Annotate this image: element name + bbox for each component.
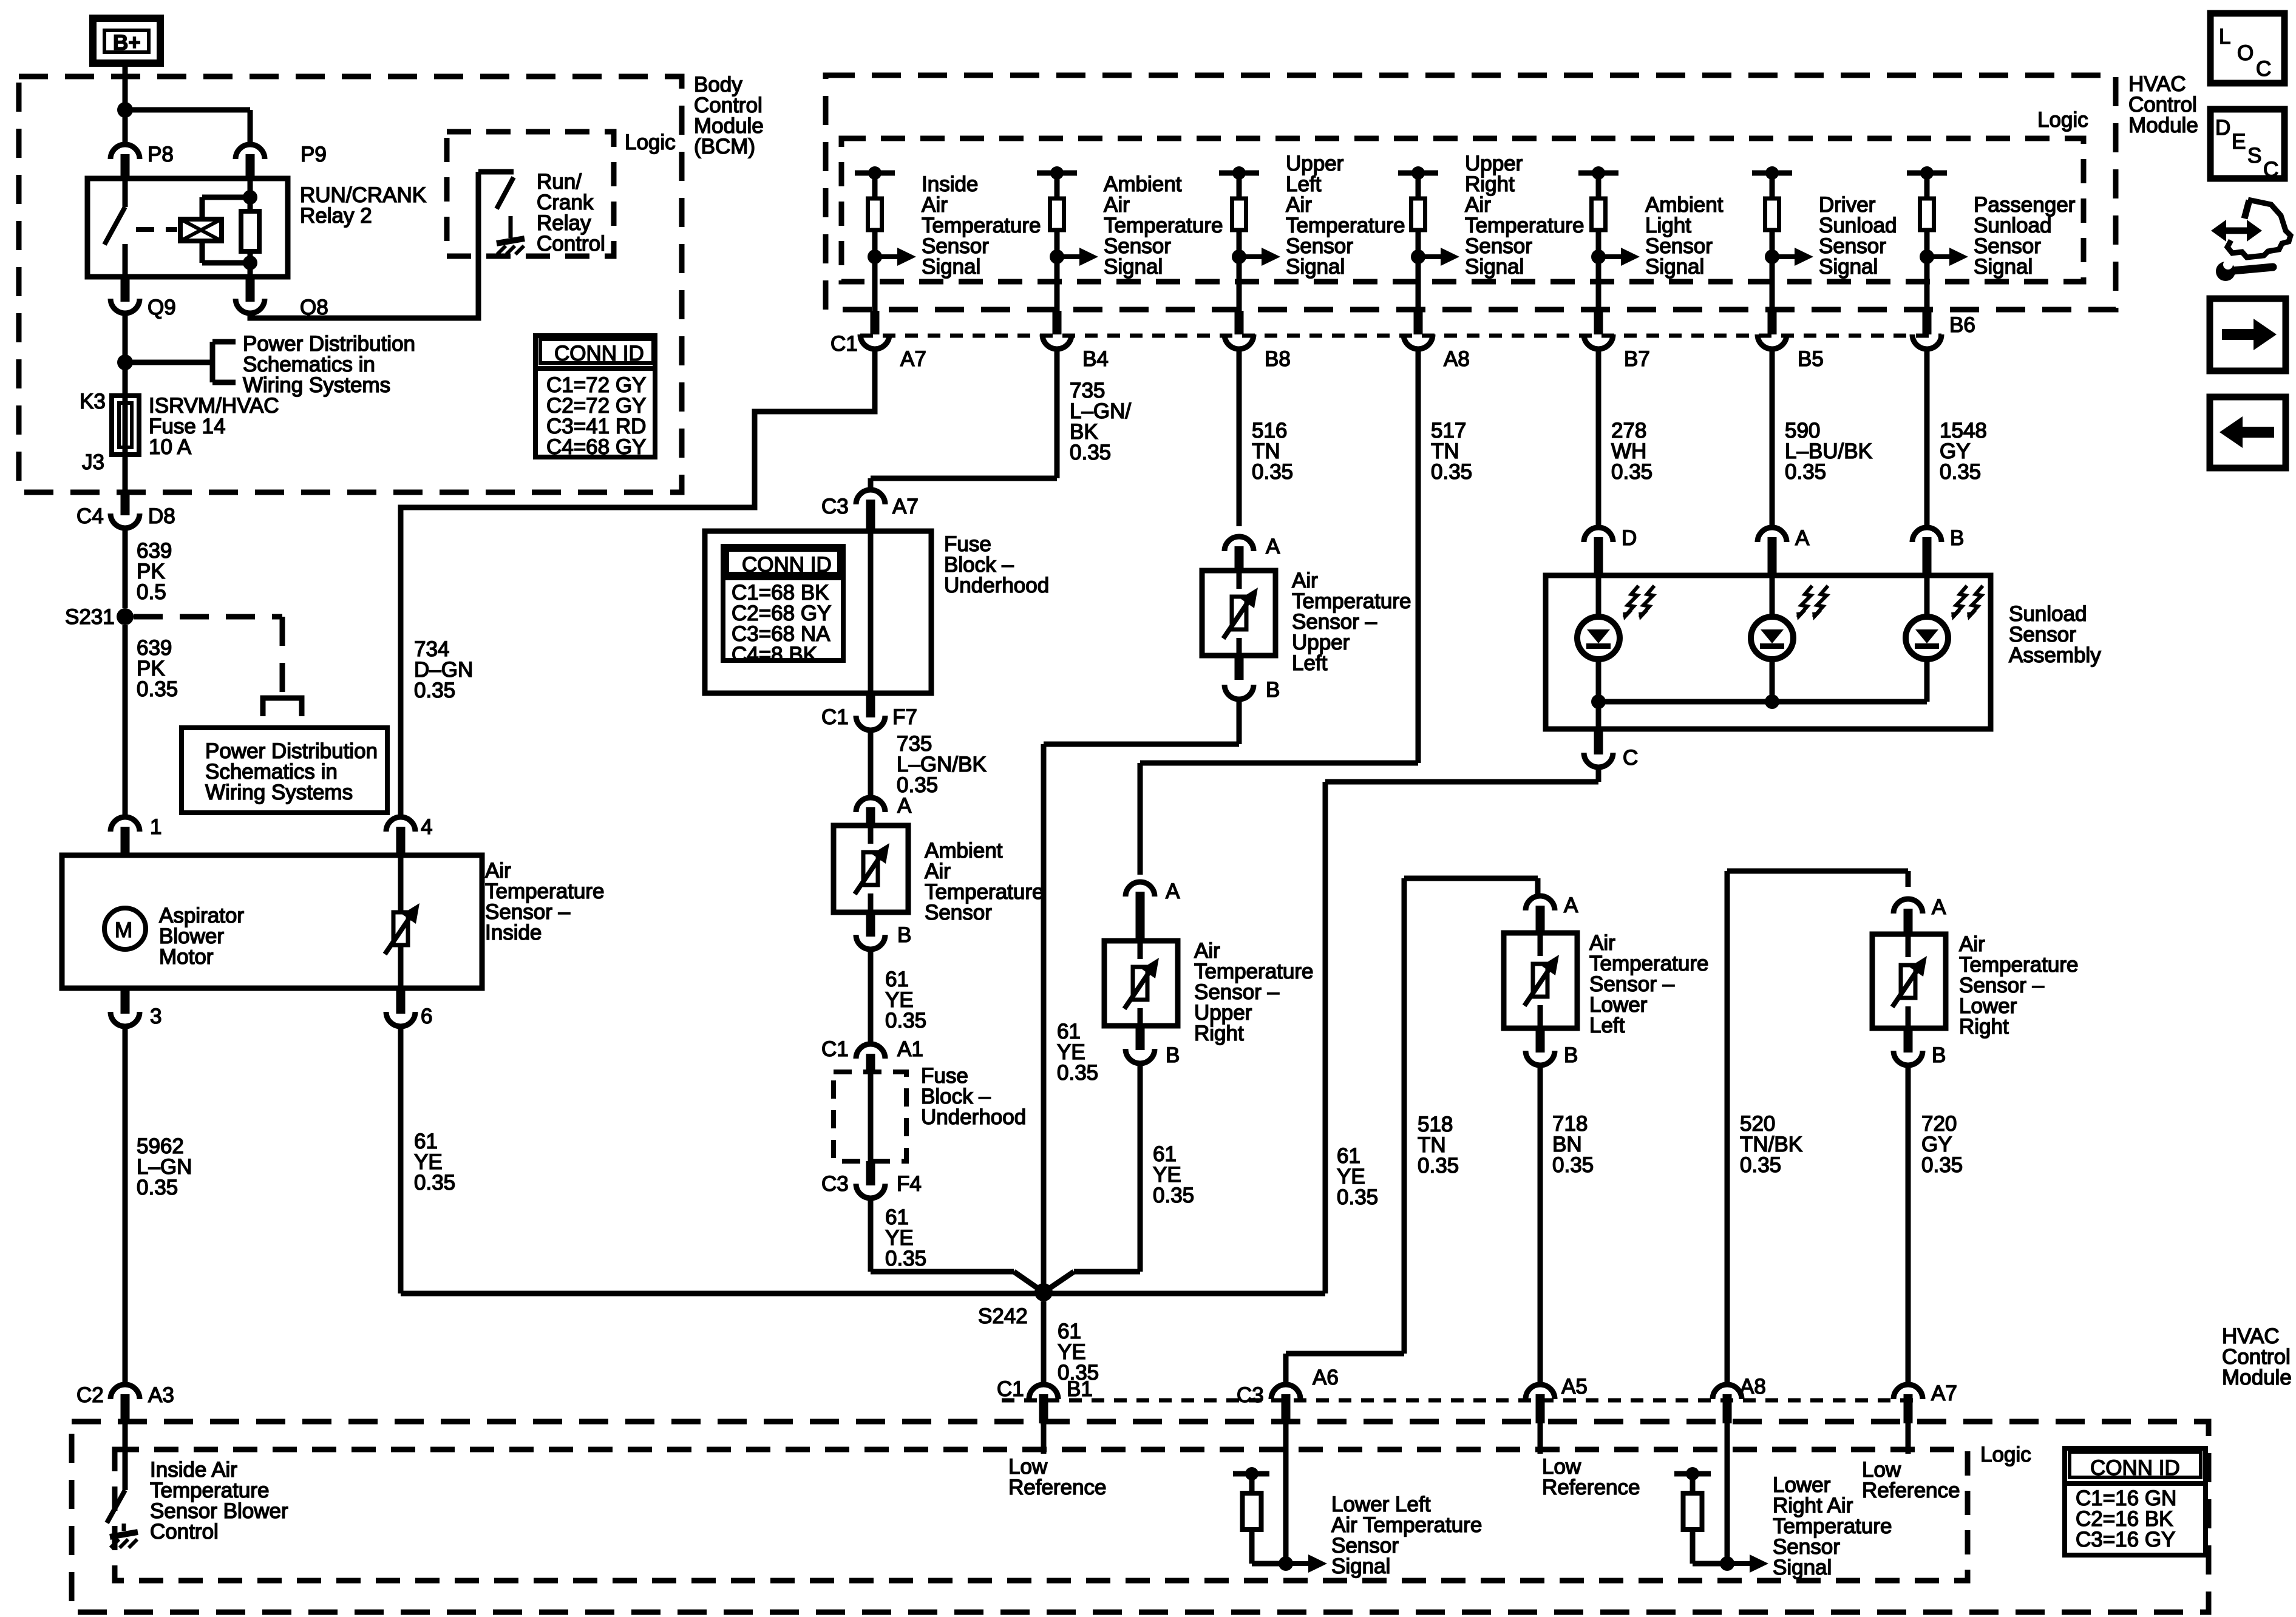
wire label 61 YE 0.35 below S242	[1058, 1320, 1099, 1385]
wire 61 YE 0.35 ambient	[868, 949, 874, 1043]
HVAC input element B5 Driver Sunload sensor signal	[1752, 166, 1813, 311]
wire label 278 WH 0.35	[1611, 419, 1652, 484]
fuse block underhood dashed box	[834, 1072, 906, 1161]
svg-text:C1=68 BKC2=68 GYC3=68 NAC4=8 B: C1=68 BKC2=68 GYC3=68 NAC4=8 BK	[732, 581, 831, 666]
wire 639 PK 0.5	[123, 528, 128, 608]
svg-text:6: 6	[421, 1005, 432, 1028]
connector pin 1	[110, 815, 161, 855]
wire label 1548 GY 0.35	[1940, 419, 1987, 484]
HVAC bottom logic dashed box	[115, 1449, 1968, 1581]
wire label 61 YE 0.35 ambient	[885, 968, 926, 1032]
connector pin A upper right	[1126, 880, 1180, 941]
svg-text:M: M	[115, 918, 132, 942]
svg-text:C4: C4	[76, 504, 104, 528]
svg-text:C: C	[2263, 158, 2278, 181]
connector pin Q8	[236, 277, 328, 319]
svg-text:3: 3	[150, 1005, 161, 1028]
wire label 734 D-GN 0.35	[414, 637, 473, 702]
relay label	[300, 183, 426, 228]
icon diagnostic arrows car and wrench	[2211, 200, 2291, 281]
svg-text:C3: C3	[821, 495, 849, 518]
wire S242 to B1	[1041, 1301, 1047, 1386]
svg-text:A: A	[897, 794, 912, 818]
HVAC input label Inside Air Temperature Sensor Signal	[922, 172, 1041, 279]
fuse block CONN ID table	[723, 546, 843, 666]
svg-text:C1: C1	[997, 1377, 1024, 1401]
svg-text:J3: J3	[82, 450, 104, 474]
svg-text:C1: C1	[821, 705, 849, 729]
air temperature sensor lower left label	[1589, 931, 1708, 1037]
connector pin C sunload	[1584, 729, 1638, 770]
svg-text:B7: B7	[1624, 347, 1650, 371]
low reference label A5	[1542, 1455, 1640, 1499]
svg-text:CONN ID: CONN ID	[742, 553, 832, 577]
connector pin B7	[1584, 311, 1650, 371]
svg-text:Q9: Q9	[148, 296, 176, 319]
connector pin B lower right	[1894, 1028, 1946, 1067]
off-page bracket to power distribution box	[263, 698, 302, 716]
fuse block underhood box	[705, 531, 931, 693]
svg-text:C1: C1	[821, 1037, 849, 1061]
wire 639 PK 0.35	[123, 625, 128, 818]
fuse pin label K3	[80, 390, 106, 413]
connector pin C3 A7 fuse block	[821, 490, 919, 531]
aspirator blower motor label	[159, 904, 244, 969]
svg-text:A: A	[1795, 526, 1810, 550]
icon arrow left box	[2210, 397, 2286, 468]
battery positive voltage symbol B+	[93, 18, 160, 63]
ambient air temperature sensor box	[834, 825, 908, 912]
svg-text:B+: B+	[113, 31, 141, 55]
HVAC input label Passenger Sunload Sensor Signal	[1974, 193, 2076, 279]
svg-text:A1: A1	[897, 1037, 923, 1061]
svg-text:CONN ID: CONN ID	[554, 342, 644, 365]
bottom connector row C dashed line	[1002, 1398, 1918, 1403]
off-page bracket power distribution	[212, 342, 236, 382]
svg-text:S: S	[2247, 144, 2261, 168]
connector pin 6	[386, 988, 432, 1028]
low reference label B1	[1008, 1455, 1106, 1499]
connector pin B8	[1224, 311, 1291, 371]
air temperature sensor upper left label	[1292, 569, 1411, 675]
svg-text:B: B	[1266, 678, 1280, 702]
icon arrow right box	[2210, 299, 2286, 371]
wire label 735 L-GN/BK 0.35	[897, 732, 987, 797]
BCM CONN ID table	[535, 336, 655, 459]
wire label 639 PK 0.35	[137, 636, 178, 701]
HVAC logic dashed box	[841, 138, 2084, 282]
svg-text:A: A	[1932, 895, 1946, 919]
svg-text:C1: C1	[830, 332, 858, 356]
wire low reference A7	[1906, 1423, 1911, 1454]
icon DESC box	[2210, 109, 2284, 181]
ambient air temperature sensor label	[925, 839, 1044, 924]
HVAC input element B6 Passenger Sunload sensor signal	[1907, 166, 1968, 311]
HVAC input element B8 Upper Left Air Temperature sensor signal	[1219, 166, 1280, 311]
wire label 516 TN 0.35	[1252, 419, 1293, 484]
wire S242 bus	[401, 1291, 1325, 1297]
connector pin A ambient sensor	[856, 794, 912, 825]
HVAC input element B4 Ambient Air Temperature sensor signal	[1037, 166, 1098, 311]
connector pin C3 F4	[821, 1161, 922, 1198]
HVAC input label Upper Left Air Temperature Sensor Signal	[1286, 152, 1405, 279]
svg-text:D: D	[2215, 116, 2230, 140]
connector pin 3	[110, 988, 161, 1028]
ground run/crank relay control	[497, 239, 525, 254]
splice S242	[978, 1283, 1053, 1328]
svg-text:Logic: Logic	[1980, 1443, 2031, 1466]
fuse block underhood label	[944, 532, 1049, 597]
connector pin A8 bottom	[1713, 1375, 1766, 1423]
aspirator blower motor box	[62, 855, 482, 988]
wire label 61 YE 0.35 blower	[414, 1130, 455, 1195]
bottom CONN ID table	[2065, 1448, 2206, 1555]
svg-text:D: D	[1622, 526, 1637, 550]
svg-text:C1=16 GNC2=16 BKC3=16 GY: C1=16 GNC2=16 BKC3=16 GY	[2076, 1486, 2176, 1551]
ground inside air temp sensor blower control	[110, 1532, 138, 1548]
connector pin A7 bottom	[1894, 1381, 1957, 1423]
connector pin Q9	[110, 277, 176, 319]
BCM Logic label	[625, 131, 676, 154]
inside air temperature sensor blower control switch	[107, 1423, 125, 1531]
svg-text:B: B	[897, 923, 911, 947]
connector pin B4	[1042, 311, 1109, 371]
HVAC input element A7 Inside Air Temperature sensor signal	[855, 166, 916, 311]
svg-text:A: A	[1564, 893, 1578, 917]
HVAC input label Upper Right Air Temperature Sensor Signal	[1465, 152, 1584, 279]
BCM label	[694, 73, 764, 158]
low reference label A7	[1862, 1458, 1960, 1502]
svg-text:B4: B4	[1082, 347, 1109, 371]
wire label 735 L–GN/ BK 0.35	[1070, 379, 1131, 464]
wire label 61 YE 0.35 ur	[1153, 1142, 1194, 1207]
connector pin C1 A1	[821, 1037, 923, 1072]
connector pin C1 F7	[821, 693, 917, 730]
HVAC input element A8 Upper Right Air Temperature sensor signal	[1398, 166, 1459, 311]
svg-text:B8: B8	[1265, 347, 1291, 371]
svg-text:278WH0.35: 278WH0.35	[1611, 419, 1652, 484]
svg-text:A8: A8	[1740, 1375, 1766, 1398]
run/crank relay control label	[537, 170, 605, 256]
svg-text:1: 1	[150, 815, 161, 839]
connector pin D sunload	[1584, 526, 1637, 575]
wire 61 YE upper right return	[1044, 1063, 1140, 1292]
svg-text:C2: C2	[76, 1383, 104, 1407]
photodiode passenger sunload sensor	[1906, 575, 1983, 702]
motor M aspirator blower	[104, 908, 146, 949]
svg-text:E: E	[2232, 130, 2246, 154]
wire 516 TN from B8	[1237, 349, 1242, 526]
HVAC control module bottom dashed box	[72, 1422, 2209, 1612]
relay coil suppression resistor	[241, 178, 259, 277]
wire label 639 PK 0.5	[137, 539, 172, 604]
svg-text:A7: A7	[892, 495, 919, 518]
air temperature sensor upper left box	[1202, 571, 1275, 656]
svg-text:F4: F4	[897, 1172, 922, 1196]
wire label 517 TN 0.35	[1431, 419, 1472, 484]
node junction to P9 branch	[117, 102, 250, 146]
wire low reference A5	[1538, 1423, 1543, 1454]
photodiode driver sunload sensor	[1751, 575, 1828, 702]
wire 517 TN from A8	[1140, 349, 1418, 875]
air temperature sensor lower right box	[1872, 934, 1946, 1028]
lower right air temperature sensor signal element	[1674, 1423, 1768, 1573]
connector pin A7	[830, 311, 926, 371]
svg-text:A8: A8	[1444, 347, 1470, 371]
svg-text:A: A	[1166, 880, 1180, 903]
fuse pin label J3	[82, 450, 104, 474]
svg-text:C: C	[1623, 746, 1638, 770]
connector pin C4 D8	[76, 490, 175, 528]
sunload sensor assembly label	[2009, 602, 2101, 667]
svg-text:B1: B1	[1067, 1377, 1093, 1401]
node coil bottom junction	[243, 256, 257, 270]
connector pin A lower left	[1526, 893, 1578, 933]
relay coil	[180, 197, 250, 263]
wire 61 YE sunload return	[1325, 767, 1598, 1293]
svg-text:K3: K3	[80, 390, 106, 413]
connector pin B5	[1758, 311, 1824, 371]
relay RUN/CRANK Relay 2 box	[87, 178, 288, 277]
node coil top junction	[243, 190, 257, 205]
HVAC control module label	[2128, 72, 2198, 137]
wire 5962 L-GN 0.35	[123, 1026, 128, 1386]
wire 718 BN 0.35	[1538, 1065, 1543, 1386]
relay actuator dashed link	[136, 227, 177, 232]
connector pin P8	[110, 143, 174, 178]
svg-text:S242: S242	[978, 1304, 1028, 1328]
HVAC input label Driver Sunload Sensor Signal	[1819, 193, 1897, 279]
connector pin B6	[1912, 311, 1975, 349]
connector pin A upper left	[1224, 535, 1280, 571]
HVAC input element B7 Ambient Light sensor signal	[1578, 166, 1640, 311]
wire sunload common bus	[1591, 694, 1927, 729]
icon LOC box	[2210, 13, 2284, 83]
air temperature sensor upper right box	[1104, 941, 1178, 1026]
photodiode ambient light sensor	[1577, 575, 1654, 702]
svg-text:A3: A3	[148, 1383, 174, 1407]
fuse block underhood dashed label	[921, 1064, 1026, 1129]
splice S231	[65, 605, 134, 629]
connector pin B ambient sensor	[856, 912, 911, 949]
svg-text:C3: C3	[1237, 1383, 1264, 1407]
connector pin B lower left	[1526, 1028, 1578, 1067]
connector pin B sunload	[1912, 526, 1964, 575]
wire 518 TN	[1286, 878, 1538, 1386]
wire 590 L-BU/BK from B5	[1770, 349, 1775, 526]
wire 720 GY 0.35	[1906, 1065, 1911, 1386]
connector pin C1 B1	[997, 1377, 1093, 1423]
connector pin 4	[386, 815, 432, 855]
svg-text:Logic: Logic	[2037, 108, 2088, 132]
BCM logic dashed box	[447, 132, 614, 256]
air temperature sensor lower right label	[1959, 932, 2078, 1039]
connector pin C3 A6	[1237, 1366, 1339, 1423]
svg-text:A7: A7	[900, 347, 926, 371]
HVAC control module dashed box	[826, 75, 2116, 310]
wire Q9 to fuse	[123, 313, 128, 396]
connector pin A5	[1526, 1375, 1588, 1423]
wire 278 WH from B7	[1596, 349, 1601, 526]
BCM module dashed box	[19, 76, 682, 492]
svg-text:F7: F7	[892, 705, 917, 729]
HVAC bottom Logic label	[1980, 1443, 2031, 1466]
wire dashed branch from S231	[134, 617, 282, 698]
run/crank relay control switch	[478, 172, 514, 238]
svg-text:D8: D8	[148, 504, 175, 528]
wire label 61 YE 0.35 sunload	[1337, 1144, 1378, 1209]
svg-text:B: B	[1166, 1043, 1180, 1067]
svg-text:4: 4	[421, 815, 432, 839]
wire label 61 YE 0.35 s242 feed	[1057, 1020, 1098, 1085]
svg-text:P8: P8	[148, 143, 174, 166]
power distribution reference box	[182, 728, 387, 813]
HVAC control module bottom label	[2222, 1324, 2292, 1389]
inside air temperature sensor blower control label	[150, 1458, 288, 1544]
svg-text:C: C	[2256, 57, 2271, 81]
lower right air temperature sensor signal label	[1773, 1473, 1892, 1579]
svg-text:L: L	[2219, 25, 2230, 49]
svg-text:A7: A7	[1931, 1381, 1957, 1405]
connector pin B upper right	[1126, 1026, 1180, 1067]
air temperature sensor inside element	[385, 855, 419, 988]
wire 735 L-GN/BK from B4	[871, 349, 1057, 492]
relay switch contact	[104, 178, 125, 277]
wire label 61 YE 0.35 f4	[885, 1205, 926, 1270]
connector pin B upper left	[1224, 656, 1280, 702]
wire 61 YE upper left return	[1044, 699, 1239, 1292]
svg-text:B6: B6	[1949, 313, 1975, 337]
wire label 590 L–BU/BK 0.35	[1785, 419, 1872, 484]
connector pin C2 A3	[76, 1383, 174, 1423]
svg-text:S231: S231	[65, 605, 115, 629]
wire 734 D-GN 0.35	[401, 350, 875, 818]
wire label 718 BN 0.35	[1552, 1112, 1594, 1177]
HVAC Logic label	[2037, 108, 2088, 132]
connector pin A lower right	[1894, 895, 1946, 934]
svg-text:B: B	[1564, 1043, 1578, 1067]
wire low reference B1	[1041, 1423, 1047, 1454]
sunload sensor assembly box	[1546, 575, 1991, 729]
svg-text:A5: A5	[1561, 1375, 1588, 1398]
svg-text:Logic: Logic	[625, 131, 676, 154]
wire 735 L-GN/BK 0.35	[868, 730, 874, 799]
svg-text:C3: C3	[821, 1172, 849, 1196]
wire label 518 TN 0.35	[1418, 1113, 1459, 1178]
fuse K3 ISRVM/HVAC Fuse 14	[112, 396, 139, 455]
connector pin P9	[236, 143, 327, 178]
connector row C1 dashed line	[860, 334, 1941, 338]
svg-text:B5: B5	[1798, 347, 1824, 371]
wire 61 YE 0.35 to S242	[871, 1198, 1044, 1292]
wire fuse to C4	[123, 455, 128, 490]
svg-text:B: B	[1950, 526, 1964, 550]
air temperature sensor inside label	[485, 859, 604, 944]
svg-text:A: A	[1266, 535, 1280, 558]
power distribution note BCM	[243, 332, 415, 397]
HVAC input label Ambient Air Temperature Sensor Signal	[1104, 172, 1223, 279]
connector pin A8	[1404, 311, 1470, 371]
wire label 720 GY 0.35	[1921, 1112, 1963, 1177]
wire Q8 to relay control	[250, 172, 478, 318]
connector pin A sunload	[1758, 526, 1810, 575]
wire label 520 TN/BK 0.35	[1740, 1112, 1802, 1177]
fuse value label	[149, 394, 279, 459]
svg-text:P9: P9	[301, 143, 327, 166]
air temperature sensor upper right label	[1194, 939, 1313, 1045]
wire 61 YE 0.35 blower return	[398, 1026, 404, 1293]
svg-text:O: O	[2237, 41, 2254, 65]
lower left air temperature sensor signal label	[1331, 1493, 1482, 1578]
node power distribution tap	[117, 354, 212, 370]
lower left air temperature sensor signal element	[1233, 1423, 1327, 1573]
air temperature sensor lower left box	[1504, 933, 1577, 1028]
wire B+ feed	[123, 63, 128, 146]
wire 1548 GY from B6	[1924, 349, 1930, 526]
wire label 5962 L-GN 0.35	[137, 1134, 192, 1199]
svg-text:B: B	[1932, 1043, 1946, 1067]
svg-text:CONN ID: CONN ID	[2090, 1456, 2180, 1480]
svg-text:C1=72 GYC2=72 GYC3=41 RDC4=68: C1=72 GYC2=72 GYC3=41 RDC4=68 GY	[546, 373, 646, 459]
wire 520 TN/BK	[1727, 871, 1908, 1386]
HVAC input label Ambient Light Sensor Signal	[1645, 193, 1724, 279]
svg-text:A6: A6	[1313, 1366, 1339, 1389]
